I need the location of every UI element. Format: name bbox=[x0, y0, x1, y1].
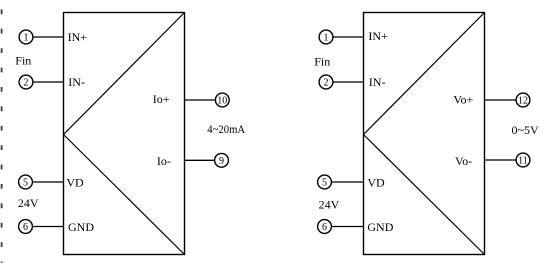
svg-text:GND: GND bbox=[367, 220, 393, 234]
terminal 2 (U1 IN-) bbox=[19, 75, 33, 89]
svg-text:IN-: IN- bbox=[68, 75, 85, 89]
terminal 1 (U2 IN+) bbox=[319, 30, 333, 44]
svg-text:6: 6 bbox=[322, 222, 327, 233]
svg-text:Vo-: Vo- bbox=[455, 154, 472, 168]
U1 amplifier triangle upper edge bbox=[64, 13, 185, 135]
wire pin5 to U2 bbox=[331, 181, 363, 183]
module U1 body bbox=[64, 13, 185, 255]
terminal 10 (U1 Io+) bbox=[215, 93, 229, 107]
wire pin6 to U1 bbox=[32, 226, 63, 228]
svg-text:Io-: Io- bbox=[157, 154, 171, 168]
svg-text:10: 10 bbox=[217, 96, 227, 107]
terminal 5 (U1 VD) bbox=[19, 175, 33, 189]
U2 amplifier triangle lower edge bbox=[364, 135, 485, 255]
wire U1 to pin10 bbox=[185, 99, 216, 101]
svg-text:VD: VD bbox=[66, 175, 84, 189]
svg-text:5: 5 bbox=[322, 178, 327, 189]
svg-text:IN+: IN+ bbox=[368, 29, 388, 43]
terminal 6 (U1 GND) bbox=[19, 220, 33, 234]
U1 amplifier triangle lower edge bbox=[64, 135, 185, 255]
page border dashed line bbox=[1, 9, 3, 263]
terminal 1 (U1 IN+) bbox=[19, 30, 33, 44]
svg-text:GND: GND bbox=[68, 220, 94, 234]
wire pin2 to U1 bbox=[33, 81, 64, 83]
svg-text:24V: 24V bbox=[319, 197, 340, 211]
wire pin5 to U1 bbox=[32, 181, 63, 183]
svg-text:12: 12 bbox=[518, 96, 528, 107]
svg-text:0~5V: 0~5V bbox=[512, 123, 539, 137]
svg-text:VD: VD bbox=[367, 175, 385, 189]
wire U1 to pin9 bbox=[185, 159, 215, 161]
terminal 2 (U2 IN-) bbox=[319, 75, 333, 89]
svg-text:IN+: IN+ bbox=[68, 30, 88, 44]
svg-text:5: 5 bbox=[23, 178, 28, 189]
U2 amplifier triangle upper edge bbox=[364, 13, 485, 135]
terminal 12 (U2 Vo+) bbox=[516, 93, 530, 107]
wire pin2 to U2 bbox=[333, 81, 364, 83]
wire U2 to pin11 bbox=[485, 159, 517, 161]
module U2 body bbox=[364, 13, 485, 255]
terminal 6 (U2 GND) bbox=[318, 220, 332, 234]
wire pin1 to U2 bbox=[333, 36, 364, 38]
svg-text:1: 1 bbox=[324, 33, 329, 44]
svg-text:11: 11 bbox=[518, 156, 528, 167]
svg-text:IN-: IN- bbox=[369, 75, 386, 89]
wire pin6 to U2 bbox=[331, 226, 363, 228]
svg-text:4~20mA: 4~20mA bbox=[207, 122, 245, 136]
svg-text:1: 1 bbox=[24, 33, 29, 44]
svg-text:2: 2 bbox=[324, 78, 329, 89]
svg-text:24V: 24V bbox=[18, 196, 39, 210]
svg-text:6: 6 bbox=[23, 222, 28, 233]
terminal 5 (U2 VD) bbox=[318, 175, 332, 189]
svg-text:Fin: Fin bbox=[15, 54, 31, 68]
svg-text:Io+: Io+ bbox=[153, 92, 170, 106]
terminal 9 (U1 Io-) bbox=[215, 153, 229, 167]
svg-text:9: 9 bbox=[219, 156, 224, 167]
svg-text:Vo+: Vo+ bbox=[453, 93, 473, 107]
svg-text:2: 2 bbox=[24, 78, 29, 89]
svg-text:Fin: Fin bbox=[314, 54, 330, 68]
wire pin1 to U1 bbox=[33, 36, 64, 38]
terminal 11 (U2 Vo-) bbox=[516, 153, 530, 167]
wire U2 to pin12 bbox=[485, 99, 517, 101]
